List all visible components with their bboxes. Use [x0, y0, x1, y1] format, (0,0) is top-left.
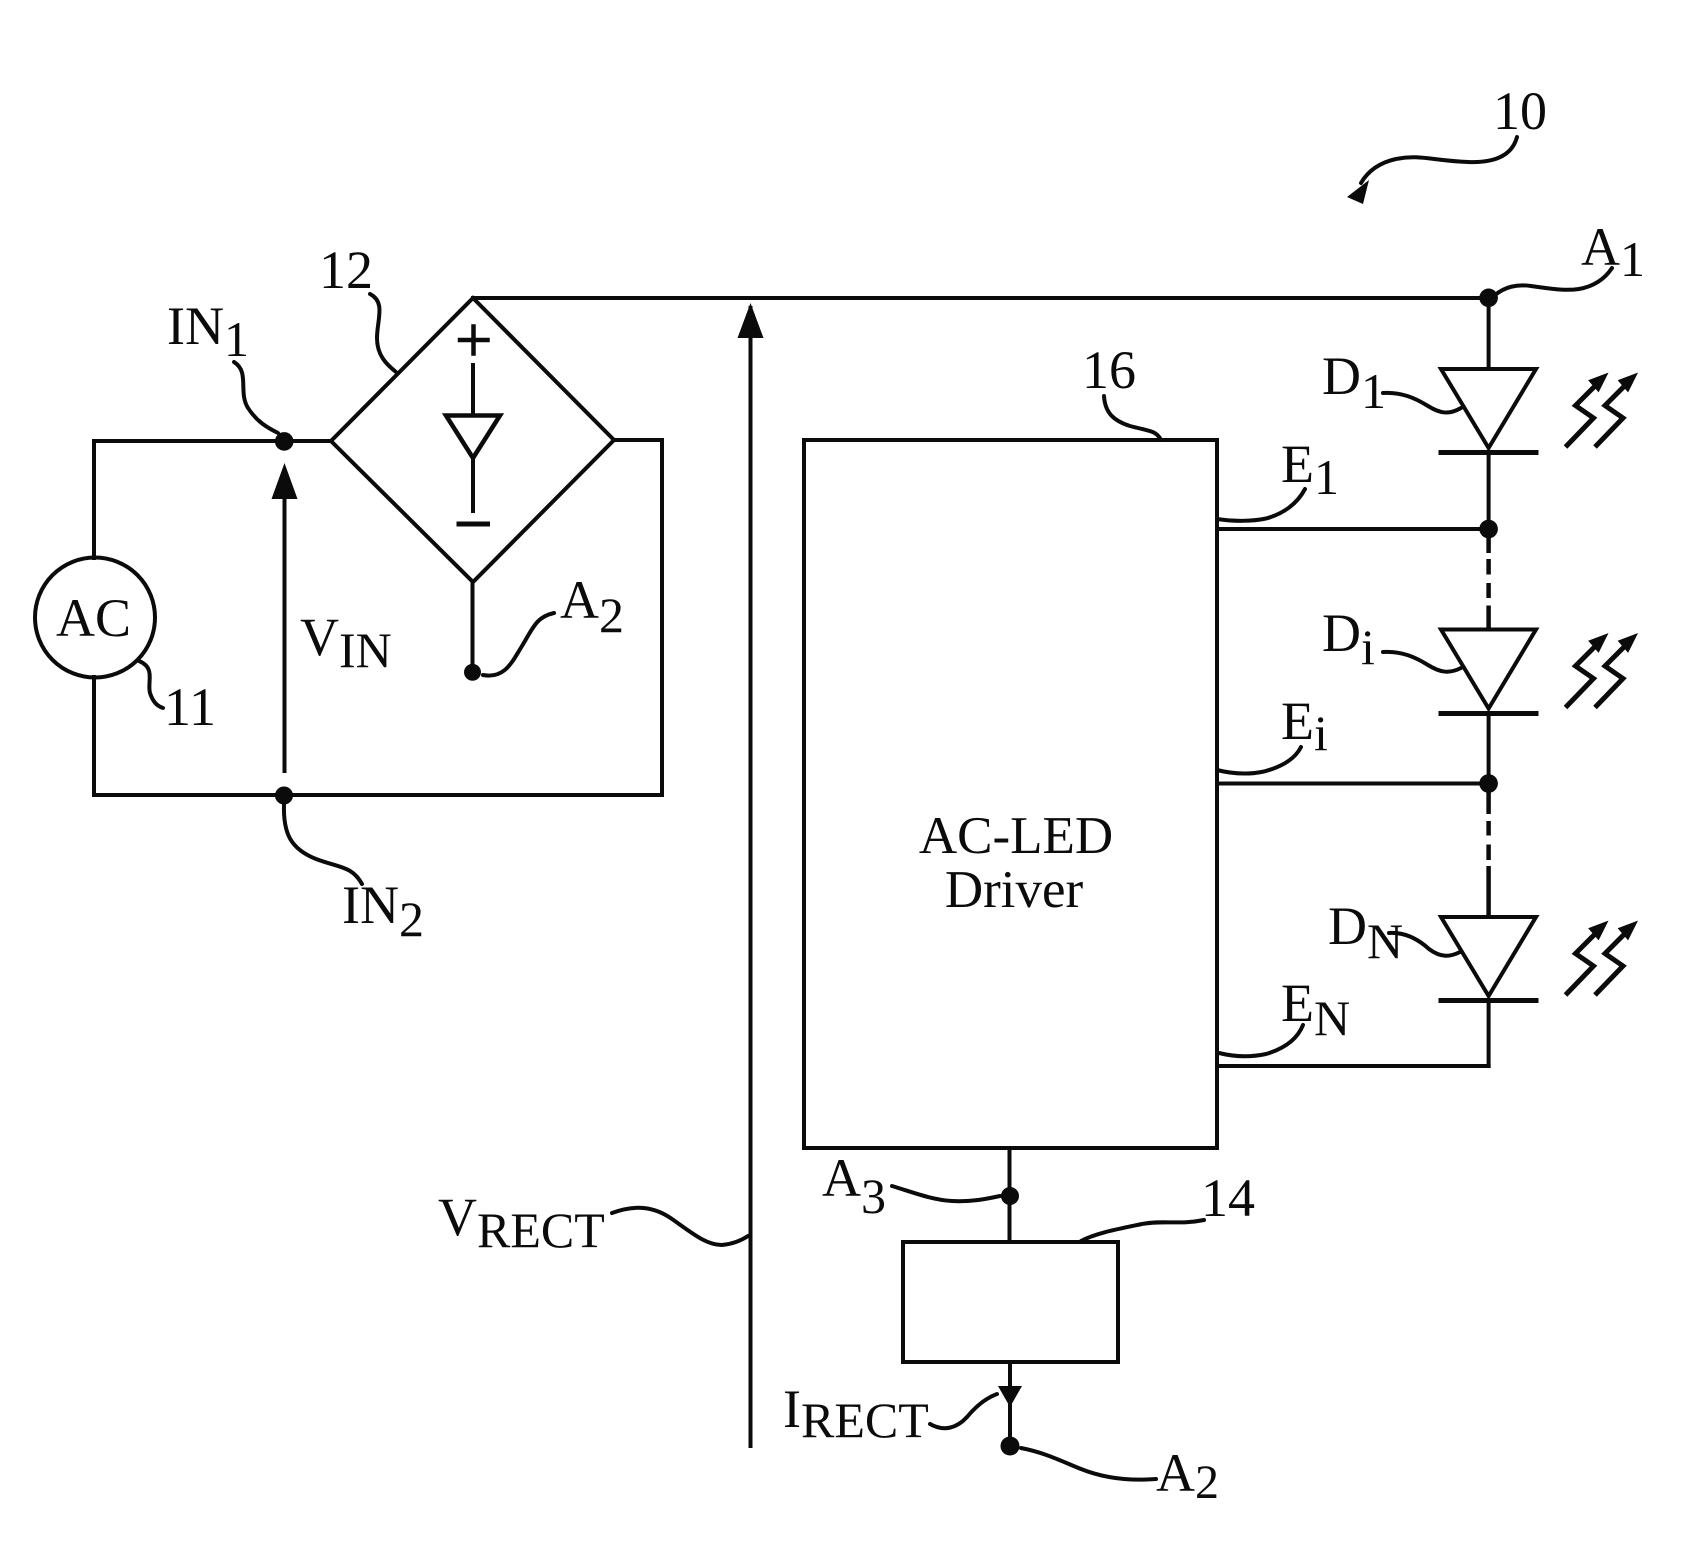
- bridge plus sign: [460, 327, 488, 354]
- VRECT measurement arrow line: [749, 308, 753, 1446]
- svg-text:AC: AC: [56, 588, 131, 648]
- wire: block 14 to node A2 (bottom): [1008, 1362, 1012, 1446]
- LED Di (triangle, cathode bar, emission arrows): [1441, 630, 1637, 714]
- leader: label Di to LED Di: [1383, 652, 1461, 672]
- connection node dots: [275, 289, 1498, 1456]
- leader: label 16 to driver box: [1104, 396, 1161, 440]
- leader: label IN2 to node IN2: [284, 804, 362, 884]
- svg-text:10: 10: [1493, 81, 1547, 141]
- wire: AC loop left vertical above AC source: [92, 441, 96, 558]
- leader: label EN to EN pin: [1219, 1025, 1303, 1056]
- leader: label IN1 to node IN1: [234, 362, 278, 433]
- node IN2: [275, 787, 293, 805]
- node IN1: [275, 432, 294, 451]
- node A3: [1001, 1187, 1019, 1205]
- leader: label VRECT to measurement line: [612, 1208, 748, 1245]
- bridge internal diode: lower lead: [471, 458, 475, 511]
- LED D1 (triangle, cathode bar, emission arrows): [1441, 369, 1637, 453]
- VRECT arrowhead: [738, 303, 764, 338]
- svg-text:16: 16: [1082, 340, 1136, 400]
- wire: AC loop right vertical: [660, 440, 664, 795]
- bridge minus sign: [459, 522, 488, 527]
- bridge rectifier 12 diamond: [331, 298, 614, 582]
- leader: label 14 to block 14: [1081, 1220, 1204, 1241]
- LED DN (triangle, cathode bar, emission arrows): [1441, 917, 1637, 1001]
- leader: label A1 to node A1: [1495, 268, 1612, 295]
- AC-LED Driver box 16: [804, 440, 1217, 1148]
- leader: label Ei to Ei pin: [1217, 747, 1301, 773]
- wire: E1 pin: [1217, 527, 1489, 531]
- wire: bridge right vertex stub: [614, 438, 662, 442]
- AC source circle 11: [35, 558, 155, 678]
- svg-text:Driver: Driver: [945, 861, 1084, 919]
- node A2 (bridge output): [464, 664, 481, 681]
- node Ei junction: [1479, 774, 1498, 793]
- node A1: [1479, 289, 1498, 308]
- leader: label A3 to node A3: [892, 1186, 1000, 1201]
- bridge internal diode: upper lead: [471, 365, 475, 413]
- leader: label 12 to bridge: [370, 294, 396, 372]
- wire: EN pin: [1217, 1064, 1489, 1068]
- leader: label A2 (bottom) to node: [1021, 1448, 1156, 1480]
- wire: driver output pin to block 14: [1008, 1148, 1012, 1242]
- wire: top rail from bridge top vertex to LED chain (node A1): [473, 296, 1489, 300]
- leader: label DN to LED DN: [1389, 933, 1460, 956]
- wire: LED chain A1 to D1 anode: [1487, 298, 1491, 369]
- VIN measurement arrow line: [283, 470, 287, 771]
- wire: Ei pin: [1217, 782, 1489, 786]
- leader curves: [139, 137, 1612, 1480]
- wire: Di cathode to node Ei: [1487, 713, 1491, 776]
- wire: D1 cathode to node E1: [1487, 452, 1491, 521]
- svg-text:AC-LED: AC-LED: [919, 807, 1113, 865]
- wire: AC loop bottom segment (IN2 side): [94, 793, 662, 797]
- node E1 junction: [1479, 520, 1498, 539]
- dashed chain segment between Ei node and DN: [1486, 792, 1491, 917]
- leader: label 10 arrow: [1361, 137, 1517, 183]
- node A2 (bottom): [1001, 1437, 1020, 1456]
- dashed chain segment between E1 node and Di: [1486, 537, 1491, 629]
- svg-text:11: 11: [164, 677, 216, 737]
- wire: AC loop top segment (IN1 side): [94, 439, 331, 443]
- VIN arrowhead: [272, 463, 298, 499]
- leader: label 11 to AC circle: [139, 661, 163, 708]
- wire: AC loop left vertical below AC source: [92, 677, 96, 795]
- leader: label IRECT to arrow: [930, 1394, 997, 1428]
- wire: bridge bottom vertex to node A2: [471, 582, 475, 668]
- IRECT current arrowhead (down): [998, 1386, 1022, 1407]
- leader: label D1 to LED D1: [1383, 393, 1461, 413]
- wire: DN cathode down to EN rail corner: [1487, 1000, 1491, 1066]
- block 14: [903, 1242, 1118, 1362]
- bridge internal diode triangle (apex down): [446, 416, 500, 459]
- leader: label A2 to bridge output node: [483, 613, 554, 676]
- leader: label E1 to E1 pin: [1217, 489, 1305, 521]
- svg-text:14: 14: [1201, 1168, 1255, 1228]
- svg-text:12: 12: [319, 240, 373, 300]
